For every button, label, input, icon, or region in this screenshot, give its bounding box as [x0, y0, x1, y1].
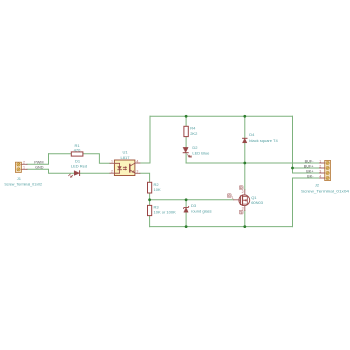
resistor R2 — [148, 182, 152, 193]
svg-text:U1: U1 — [122, 150, 128, 155]
svg-text:Screw_Terminal_01x04: Screw_Terminal_01x04 — [301, 188, 350, 193]
svg-text:BUF+: BUF+ — [304, 164, 315, 168]
svg-text:4: 4 — [136, 159, 138, 163]
wire BK- down to bottom rail — [293, 178, 320, 227]
zener D3 — [184, 206, 189, 212]
svg-text:2K2: 2K2 — [190, 131, 198, 136]
svg-text:BUF-: BUF- — [305, 159, 315, 163]
svg-text:L817: L817 — [121, 155, 131, 160]
wire R1 rail — [49, 154, 111, 164]
wire top rail — [150, 115, 293, 117]
svg-text:470: 470 — [74, 148, 81, 153]
svg-text:PWM: PWM — [34, 161, 43, 165]
svg-text:1: 1 — [319, 159, 321, 163]
svg-text:R3: R3 — [154, 204, 160, 209]
svg-text:3: 3 — [319, 169, 321, 173]
svg-text:2: 2 — [111, 169, 113, 173]
svg-text:3: 3 — [242, 206, 244, 210]
wire gate line — [150, 199, 234, 201]
svg-text:GND: GND — [35, 166, 44, 170]
svg-text:3: 3 — [136, 170, 138, 174]
svg-text:10K: 10K — [154, 187, 161, 192]
junction dots — [148, 115, 294, 228]
svg-text:BK+: BK+ — [306, 169, 314, 173]
svg-text:10K or 100K: 10K or 100K — [154, 210, 177, 215]
wire GND from J1 to D1 rail — [27, 169, 110, 173]
svg-text:D3: D3 — [191, 203, 197, 208]
svg-text:round glass: round glass — [191, 209, 212, 214]
opto-coupler U1 — [110, 160, 140, 176]
svg-text:D2: D2 — [192, 145, 198, 150]
wire Q1 drain/source verticals — [244, 163, 246, 227]
connector J1 — [15, 162, 27, 172]
svg-text:1: 1 — [23, 166, 25, 170]
connector J2 — [320, 160, 331, 180]
diode D4 — [243, 138, 247, 143]
LED D1 — [69, 171, 80, 177]
wire bottom rail — [150, 226, 293, 228]
svg-text:4: 4 — [319, 174, 321, 178]
svg-text:LED Blue: LED Blue — [192, 150, 210, 155]
svg-text:2: 2 — [23, 161, 25, 165]
svg-text:BK-: BK- — [307, 174, 314, 178]
wire U1 pin4 to top rail riser — [140, 116, 150, 163]
svg-text:black square T4: black square T4 — [249, 138, 278, 143]
resistor R4 — [184, 126, 188, 136]
resistor R1 — [71, 152, 83, 156]
svg-text:60N03: 60N03 — [251, 200, 264, 205]
resistor R3 — [148, 205, 152, 215]
LED D2 — [183, 147, 191, 157]
svg-text:G: G — [228, 194, 231, 198]
svg-text:Screw_Terminal_01x02: Screw_Terminal_01x02 — [4, 181, 42, 186]
wire D4 branch — [244, 116, 246, 163]
svg-text:1: 1 — [232, 196, 234, 200]
svg-text:2: 2 — [319, 164, 321, 168]
svg-text:D4: D4 — [249, 132, 255, 137]
wire BUF- rail — [186, 162, 320, 164]
Q1 pin letters — [227, 186, 243, 214]
svg-text:2: 2 — [242, 190, 244, 194]
svg-text:J2: J2 — [315, 183, 320, 188]
svg-text:1: 1 — [111, 160, 113, 164]
svg-text:LED Red: LED Red — [71, 163, 87, 168]
wire right vertical to BUF+/BK+ — [293, 116, 320, 173]
MOSFET Q1 — [234, 190, 250, 211]
wire U1 pin3 to R2 column — [140, 173, 150, 226]
wire R4/D2 branch — [185, 116, 187, 163]
wire D3 branch — [185, 200, 187, 227]
wire PWM from J1 to riser — [27, 154, 49, 165]
